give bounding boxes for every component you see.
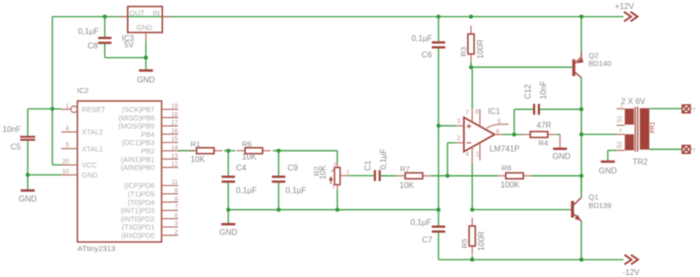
svg-text:10K: 10K [191, 155, 206, 164]
svg-text:(OC1)PB3: (OC1)PB3 [122, 139, 155, 147]
capacitor C12 [533, 104, 540, 115]
svg-text:5: 5 [66, 142, 70, 149]
pin name VCC [82, 162, 97, 170]
wire -12V rail [439, 259, 624, 261]
capacitor C4 [222, 176, 235, 183]
svg-text:BD139: BD139 [589, 201, 612, 210]
pin label OUT [130, 8, 146, 17]
pin name (MOSI)PB5 [118, 123, 154, 131]
wire C6 top [438, 17, 440, 42]
svg-text:ATtiny2313: ATtiny2313 [78, 244, 116, 253]
pin name (AIN1)PB1 [121, 156, 155, 164]
svg-text:12: 12 [171, 161, 178, 168]
pin 20 VCC [61, 164, 77, 166]
wire C6 bottom / ground column [438, 49, 440, 210]
pin 19 (SCK)PB7 [162, 108, 179, 110]
pot pin number 1 [332, 184, 335, 190]
pin number 6 [496, 129, 500, 135]
value 100R of R5 rotated [477, 231, 486, 251]
node C9 on bus [277, 208, 281, 212]
node Q1 emitter on rail [579, 258, 583, 262]
pin 7 (INT1)PD3 [162, 209, 179, 211]
node collector/C12 [579, 107, 583, 111]
node Q2 emitter on rail [579, 15, 583, 19]
svg-text:47R: 47R [537, 121, 552, 130]
svg-text:R5: R5 [460, 239, 469, 249]
winding name S1 rotated [618, 115, 624, 123]
op-amp plus sign [467, 124, 472, 129]
node C4/gnd-symbol [226, 208, 230, 212]
svg-text:10: 10 [62, 168, 69, 175]
value 0,1µF of C7 [411, 218, 432, 227]
svg-text:GND: GND [137, 75, 155, 84]
connector pad 2 [682, 146, 690, 154]
pin number 8 [175, 196, 179, 203]
pin name XTAL2 [82, 129, 103, 137]
pin number 16 [171, 128, 178, 135]
wire Q1 collector [580, 176, 582, 198]
pin 10 GND [61, 174, 77, 176]
pin 8 (T0)PD4 [162, 201, 179, 203]
ground below C5 [21, 189, 35, 191]
pin name (MISO)PB6 [118, 114, 154, 122]
resistor R1 [188, 148, 222, 154]
pin label IN [153, 8, 160, 17]
pad label 2 [691, 148, 697, 153]
svg-text:IN: IN [153, 8, 160, 17]
svg-text:0,1µF: 0,1µF [78, 27, 99, 36]
svg-text:10K: 10K [400, 181, 415, 190]
transformer TR2 winding S1 [625, 109, 634, 125]
pin name (T1)PD5 [128, 191, 155, 199]
wire Q2 base net [471, 66, 572, 68]
wire R5 bottom to rail [471, 255, 473, 259]
value 100K of R8 [501, 180, 521, 189]
svg-text:PB2: PB2 [141, 148, 154, 156]
wire C5 top [27, 109, 29, 136]
svg-text:7: 7 [175, 204, 179, 211]
pin number 1 [476, 152, 480, 158]
name R2 rotated [312, 166, 321, 176]
value BD140 [589, 59, 612, 68]
name Q1 [589, 193, 599, 202]
capacitor C5 [20, 136, 35, 141]
svg-text:GND: GND [219, 228, 237, 237]
pot pin number 2 [346, 170, 349, 176]
resistor R3 [468, 26, 474, 63]
wire R8 to output column [531, 175, 581, 177]
name C6 [422, 51, 433, 60]
pin number 5 [66, 142, 70, 149]
capacitor C6 [432, 41, 445, 48]
svg-text:GND: GND [137, 23, 153, 32]
pin 6 output stub [495, 134, 503, 136]
label +12V [615, 2, 635, 11]
transistor Q1 BD139 [571, 198, 581, 222]
label TR2 [633, 158, 649, 167]
voltage regulator IC3 box [128, 7, 163, 33]
value 0,1µF of C6 [412, 34, 433, 43]
pin number 4 [66, 125, 70, 132]
wire P1 top to pad [649, 108, 682, 110]
svg-text:-2: -2 [691, 148, 697, 153]
svg-text:(T0)PD4: (T0)PD4 [128, 199, 155, 207]
value 10nF of C5 [3, 125, 22, 134]
pin 1 stub [479, 143, 481, 161]
svg-text:0,1µF: 0,1µF [411, 218, 432, 227]
svg-text:R6: R6 [242, 139, 252, 148]
wire R3 bottom to op-amp V+ [471, 62, 472, 67]
pin number 18 [171, 111, 178, 118]
pin name (RXD)PD0 [121, 232, 155, 240]
svg-text:(T1)PD5: (T1)PD5 [128, 191, 155, 199]
label GND at TR2 [599, 166, 617, 175]
pin 5 XTAL1 [61, 148, 77, 150]
svg-text:IC1: IC1 [488, 107, 500, 116]
pin 2 stub [456, 142, 464, 144]
pin 3 (TXD)PD1 [162, 226, 179, 228]
pin label GND inside IC3 [137, 23, 153, 32]
resistor R4 [522, 132, 556, 138]
label GND at R4 [553, 152, 571, 161]
pin number 11 [172, 179, 179, 186]
svg-text:C4: C4 [236, 163, 247, 172]
label -12V [622, 268, 640, 277]
svg-text:BD140: BD140 [589, 59, 612, 68]
svg-text:R1: R1 [191, 139, 201, 148]
pin number 5 [498, 120, 502, 126]
pot R2 wiper arrow [329, 169, 335, 184]
svg-text:(RXD)PD0: (RXD)PD0 [121, 232, 155, 240]
pin 11 (ICP)PD6 [162, 185, 179, 187]
svg-text:0,1µF: 0,1µF [412, 34, 433, 43]
svg-text:XTAL2: XTAL2 [82, 129, 103, 137]
pin name (TXD)PD1 [122, 224, 155, 232]
pin 1 RESET with inversion bubble [61, 106, 77, 112]
pin name (OC1)PB3 [122, 139, 155, 147]
pin 6 (INT0)PD2 [162, 218, 179, 220]
name R6 [242, 139, 252, 148]
svg-text:0,1µF: 0,1µF [379, 149, 388, 170]
value 0,1µF of C1 rotated [379, 149, 388, 170]
pot R2 wiper lead [340, 175, 349, 177]
value 10nF of C12 rotated [539, 81, 548, 100]
wire R7 to R8 [431, 175, 498, 177]
transformer TR2 winding S2 [625, 134, 634, 150]
node C6 on rail [437, 15, 441, 19]
node R8/output column [579, 174, 583, 178]
wire C1 to R7 [381, 175, 397, 177]
svg-text:C1: C1 [363, 160, 372, 171]
node +IN tap [437, 124, 441, 128]
pin name (INT1)PD3 [121, 207, 155, 215]
node V+ / Q2 base junction [469, 65, 473, 69]
pin 7 V+ stub [471, 109, 473, 122]
wire C7 bottom [438, 233, 440, 260]
value 100R of R3 rotated [476, 39, 485, 59]
wire C9 top [278, 151, 280, 176]
IC U2 ATtiny2313 box [77, 101, 161, 242]
value 0,1µF of C4 [236, 186, 257, 195]
svg-text:GND: GND [82, 172, 98, 180]
resistor R8 [497, 173, 531, 179]
svg-text:(SCK)PB7: (SCK)PB7 [122, 106, 155, 114]
pin stub S2 top [617, 133, 625, 135]
wire output to transformer [581, 133, 616, 135]
winding name S2 rotated [618, 141, 624, 149]
wire V+ column [471, 67, 473, 108]
svg-text:RESET: RESET [82, 106, 106, 114]
name IC3 [122, 34, 134, 43]
wire C8 bottom to regulator gnd [105, 44, 146, 58]
svg-text:10K: 10K [242, 153, 257, 162]
pin IN of IC3 [162, 16, 170, 18]
wire C9 bottom [278, 183, 280, 210]
pin number 20 [62, 158, 69, 165]
svg-text:OUT: OUT [130, 8, 146, 17]
pin name RESET [82, 106, 106, 114]
pin name (T0)PD4 [128, 199, 155, 207]
pin name PB2 [141, 148, 154, 156]
node R6/C9 [277, 149, 281, 153]
svg-text:S1: S1 [618, 115, 624, 123]
power +12V chevron [624, 12, 638, 22]
pin number 4 [466, 152, 470, 158]
transformer core [635, 107, 637, 152]
op-amp U1 triangle [464, 117, 495, 151]
resistor R5 [469, 218, 475, 255]
node C8 tap on 5V wire [103, 15, 107, 19]
pin 8 stub [479, 109, 481, 127]
pot pin number 3 [334, 162, 337, 168]
pin number speck S1 bottom [619, 127, 622, 133]
name IC2 [77, 86, 89, 95]
wire C7 top [438, 210, 440, 226]
wire gnd symbol stem [227, 210, 229, 223]
pin number 3 [457, 119, 461, 125]
name R3 rotated [459, 47, 468, 57]
value LM741P [490, 144, 520, 153]
svg-text:GND: GND [553, 152, 571, 161]
pin number 8 [475, 110, 479, 116]
pin number 3 [175, 221, 179, 228]
svg-text:C7: C7 [422, 235, 433, 244]
node R3 on rail [469, 15, 473, 19]
svg-text:(ICP)PD6: (ICP)PD6 [124, 182, 154, 190]
svg-text:11: 11 [172, 179, 179, 186]
name R4 above [537, 121, 552, 130]
node bus/C7 junction [437, 208, 441, 212]
node output/R8... continue [579, 132, 583, 136]
wire PB2 to R1 [178, 150, 195, 152]
pin number 12 [171, 161, 178, 168]
wire pin10 GND [28, 174, 61, 176]
pin number 10 [62, 168, 69, 175]
capacitor C7 [432, 226, 445, 233]
transistor Q2 BD140 [572, 52, 583, 77]
value 0,1µF of C8 [78, 27, 99, 36]
svg-text:(AIN0)PB0: (AIN0)PB0 [121, 164, 155, 172]
pin 15 (OC1)PB3 [162, 142, 179, 144]
power -12V chevron [625, 255, 639, 265]
svg-text:10nF: 10nF [3, 125, 22, 134]
pot R2 bottom lead [336, 185, 338, 190]
name C12 rotated [524, 84, 533, 99]
svg-text:R3: R3 [459, 47, 468, 57]
wire R6 to pot [273, 151, 338, 163]
svg-text:1: 1 [620, 103, 623, 109]
svg-text:16: 16 [171, 128, 178, 135]
svg-text:1: 1 [332, 184, 335, 190]
ground on bus [221, 223, 235, 225]
name C9 [288, 163, 299, 172]
svg-text:-12V: -12V [622, 268, 640, 277]
value 5V [124, 41, 134, 50]
wire C4 top [227, 151, 229, 176]
svg-text:0,1µF: 0,1µF [236, 186, 257, 195]
label 2 X 6V [621, 97, 646, 106]
pin name (ICP)PD6 [124, 182, 154, 190]
pin 4 XTAL2 [61, 131, 77, 133]
svg-text:100K: 100K [501, 180, 521, 189]
pin 3 stub [456, 125, 464, 127]
svg-text:2: 2 [175, 229, 179, 236]
svg-text:TR2: TR2 [633, 158, 649, 167]
svg-text:3: 3 [334, 162, 337, 168]
svg-text:17: 17 [171, 120, 178, 127]
pin stub S1 bottom [617, 124, 625, 126]
pin number 6 [175, 212, 179, 219]
connector pad 1 [682, 105, 690, 113]
name C4 [236, 163, 247, 172]
node V- / Q1 base / R5 [470, 208, 474, 212]
node C8/IC3 gnd junction [144, 56, 148, 60]
svg-text:R8: R8 [502, 163, 512, 172]
svg-text:100R: 100R [477, 231, 486, 251]
name C1 rotated [363, 160, 372, 171]
pin 18 (MISO)PB6 [162, 117, 179, 119]
capacitor C9 [272, 176, 285, 183]
pin 17 (MOSI)PB5 [162, 125, 179, 127]
svg-text:+12V: +12V [615, 2, 635, 11]
svg-text:R7: R7 [400, 164, 410, 173]
svg-text:(INT1)PD3: (INT1)PD3 [121, 207, 155, 215]
wire RESET net [28, 108, 61, 110]
resistor R6 [237, 148, 271, 154]
svg-text:5V: 5V [124, 41, 134, 50]
svg-text:C12: C12 [524, 84, 533, 99]
pin number 9 [175, 188, 179, 195]
name IC1 [488, 107, 500, 116]
svg-text:8: 8 [175, 196, 179, 203]
value 10K of R2 rotated [319, 164, 328, 179]
svg-text:LM741P: LM741P [490, 144, 520, 153]
svg-text:14: 14 [171, 145, 178, 152]
capacitor C1 [374, 170, 381, 181]
potentiometer R2 body [335, 168, 341, 185]
svg-text:XTAL1: XTAL1 [82, 145, 103, 153]
pin number 14 [171, 145, 178, 152]
svg-text:2 X 6V: 2 X 6V [621, 97, 646, 106]
wire C12 right [540, 108, 581, 110]
node output/C12/R4 [512, 133, 516, 137]
winding name P1 rotated [651, 121, 657, 133]
capacitor C8 [98, 37, 111, 44]
wire pot wiper to C1 [349, 175, 374, 177]
pin 16 PB4 [162, 133, 179, 135]
value BD139 [589, 201, 612, 210]
svg-text:20: 20 [62, 158, 69, 165]
svg-text:PR1: PR1 [651, 121, 657, 133]
label R4 below [539, 138, 549, 147]
wire V- column [471, 163, 473, 209]
pin name PB4 [141, 131, 154, 139]
wire P1 bottom to pad [649, 148, 682, 150]
svg-text:PB4: PB4 [141, 131, 154, 139]
svg-text:6: 6 [175, 212, 179, 219]
name R7 [400, 164, 410, 173]
value 10K of R1 [191, 155, 206, 164]
node RESET junction [50, 107, 54, 111]
pin stub S1 top [617, 108, 625, 110]
name C7 [422, 235, 433, 244]
pin 13 (AIN1)PB1 [162, 158, 179, 160]
value 0,1µF of C9 [286, 186, 307, 195]
name Q2 [589, 51, 599, 60]
svg-text:C9: C9 [288, 163, 299, 172]
pin name (AIN0)PB0 [121, 164, 155, 172]
svg-text:IC2: IC2 [77, 86, 89, 95]
pin OUT of IC3 [119, 16, 127, 18]
pin number speck S1 top [620, 103, 623, 109]
pin 9 (T1)PD5 [162, 193, 179, 195]
svg-text:(AIN1)PB1: (AIN1)PB1 [121, 156, 155, 164]
svg-text:R4: R4 [539, 138, 549, 147]
node R1/R6/C4 [226, 149, 230, 153]
wire Q2 collector [580, 77, 582, 109]
pin stub S2 bottom [617, 149, 625, 151]
wire C12 left [514, 109, 533, 134]
svg-text:10K: 10K [319, 164, 328, 179]
pin number 19 [171, 103, 178, 110]
resistor R7 [397, 173, 431, 179]
label GND on bus [219, 228, 237, 237]
wire left column (+5V to RESET/VCC) [52, 17, 61, 165]
svg-text:0,1µF: 0,1µF [286, 186, 307, 195]
value 10K of R6 [242, 153, 257, 162]
svg-text:GND: GND [19, 195, 37, 204]
label ATtiny2313 [78, 244, 116, 253]
ground at TR2 [601, 160, 615, 162]
pin name (SCK)PB7 [122, 106, 155, 114]
svg-text:13: 13 [171, 153, 178, 160]
wire gnd TR2 stem [607, 150, 609, 160]
wire S2 bottom to gnd [608, 149, 617, 151]
pin 14 PB2 [162, 150, 179, 152]
pin 5 offset stub [487, 124, 509, 128]
pin 12 (AIN0)PB0 [162, 166, 179, 168]
transformer TR2 winding P1 [640, 108, 650, 149]
node C5/pin10 junction [26, 173, 30, 177]
wire op-amp output [503, 134, 522, 136]
wire C5 bottom to GND [27, 139, 29, 189]
svg-text:18: 18 [171, 111, 178, 118]
wire C8 top [104, 17, 106, 37]
wire pot bottom [336, 190, 338, 210]
wire IC3 gnd [145, 41, 147, 70]
wire Q1 base net [472, 209, 571, 211]
svg-text:S2: S2 [618, 141, 624, 149]
